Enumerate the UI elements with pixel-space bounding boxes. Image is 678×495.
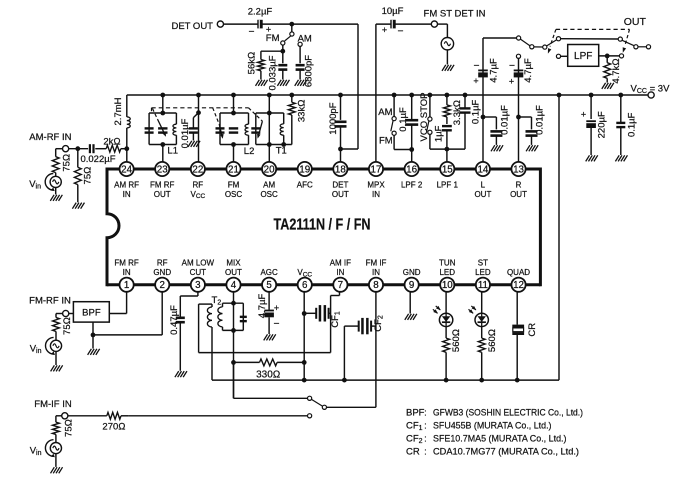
svg-text:FM RF: FM RF: [150, 180, 175, 189]
svg-text:MPX: MPX: [367, 180, 385, 189]
svg-text:0.1µF: 0.1µF: [470, 99, 481, 124]
svg-text:FM IF: FM IF: [366, 258, 387, 267]
svg-text:AM-RF IN: AM-RF IN: [29, 132, 71, 143]
svg-text:GND: GND: [403, 268, 421, 277]
svg-text:OSC: OSC: [225, 190, 243, 199]
svg-text:CR: CR: [406, 447, 420, 458]
svg-text:IN: IN: [336, 268, 344, 277]
svg-text:56kΩ: 56kΩ: [247, 52, 258, 75]
svg-text:AM: AM: [298, 34, 312, 45]
svg-text:LPF 2: LPF 2: [401, 180, 423, 189]
svg-text::: :: [424, 420, 427, 431]
svg-text:AFC: AFC: [297, 180, 313, 189]
svg-text:QUAD: QUAD: [507, 268, 530, 277]
svg-text:IN: IN: [123, 268, 131, 277]
svg-text:3: 3: [195, 280, 201, 291]
svg-text:VCO STOP: VCO STOP: [419, 93, 430, 142]
svg-text:OUT: OUT: [624, 16, 647, 28]
svg-text:LED: LED: [439, 268, 455, 277]
svg-text:6: 6: [302, 280, 308, 291]
svg-text:AGC: AGC: [260, 268, 278, 277]
svg-text:TA2111N / F / FN: TA2111N / F / FN: [274, 216, 371, 233]
svg-text:LPF: LPF: [574, 51, 592, 62]
svg-text:10: 10: [442, 280, 453, 291]
svg-text:0.47µF: 0.47µF: [169, 305, 180, 335]
svg-text:–: –: [398, 25, 403, 35]
svg-text:1µF: 1µF: [434, 125, 445, 142]
svg-text:LPF 1: LPF 1: [437, 180, 459, 189]
svg-text:13: 13: [513, 165, 524, 176]
svg-text:9: 9: [409, 280, 414, 291]
svg-text:+: +: [581, 110, 586, 120]
svg-text:–: –: [274, 318, 279, 328]
svg-text:GND: GND: [153, 268, 171, 277]
svg-text:2.2µF: 2.2µF: [248, 7, 273, 18]
svg-text:GFWB3 (SOSHIN ELECTRIC Co., Lt: GFWB3 (SOSHIN ELECTRIC Co., Ltd.): [433, 407, 583, 418]
svg-text::: :: [424, 447, 427, 458]
svg-text:LED: LED: [475, 268, 491, 277]
svg-text::: :: [424, 434, 427, 445]
svg-text:0.1µF: 0.1µF: [627, 112, 638, 137]
svg-text:+: +: [274, 303, 279, 313]
svg-text:DET: DET: [332, 180, 348, 189]
svg-text:7: 7: [338, 280, 343, 291]
svg-text:0.01µF: 0.01µF: [180, 118, 191, 148]
svg-text:16: 16: [406, 165, 417, 176]
svg-text:18: 18: [335, 165, 346, 176]
svg-text:2kΩ: 2kΩ: [103, 136, 120, 147]
svg-text:75Ω: 75Ω: [64, 419, 75, 437]
svg-text:RF: RF: [157, 258, 168, 267]
svg-text:0.1µF: 0.1µF: [398, 107, 409, 132]
svg-text:TUN: TUN: [439, 258, 456, 267]
svg-text:+: +: [473, 76, 478, 86]
svg-text:AM IF: AM IF: [330, 258, 351, 267]
svg-text:0.01µF: 0.01µF: [499, 105, 510, 135]
svg-text:20: 20: [264, 165, 275, 176]
svg-text:1: 1: [124, 280, 129, 291]
svg-text:CDA10.7MG77 (MURATA Co., Ltd.): CDA10.7MG77 (MURATA Co., Ltd.): [433, 447, 579, 458]
svg-text:OSC: OSC: [260, 190, 278, 199]
svg-text:AM LOW: AM LOW: [182, 258, 215, 267]
svg-text:270Ω: 270Ω: [102, 421, 125, 432]
svg-text:560Ω: 560Ω: [487, 329, 498, 352]
svg-text:ST: ST: [478, 258, 488, 267]
svg-text:14: 14: [477, 165, 488, 176]
svg-text:+: +: [509, 77, 514, 87]
svg-text::: :: [424, 407, 427, 418]
svg-text:15: 15: [442, 165, 453, 176]
svg-text:–: –: [474, 60, 479, 70]
svg-text:75Ω: 75Ω: [62, 154, 73, 172]
svg-text:4.7µF: 4.7µF: [489, 58, 500, 83]
svg-text:IN: IN: [123, 190, 131, 199]
svg-text:2.7mH: 2.7mH: [113, 97, 124, 125]
svg-text:17: 17: [371, 165, 382, 176]
svg-text:SFE10.7MA5 (MURATA Co., Ltd.): SFE10.7MA5 (MURATA Co., Ltd.): [433, 434, 567, 445]
svg-text:–: –: [249, 25, 254, 35]
svg-text:FM-RF IN: FM-RF IN: [29, 295, 71, 306]
svg-text:FM RF: FM RF: [114, 258, 139, 267]
svg-text:75Ω: 75Ω: [83, 167, 94, 185]
svg-text:23: 23: [157, 165, 168, 176]
svg-text:12: 12: [513, 280, 524, 291]
svg-text:RF: RF: [193, 180, 204, 189]
svg-text:SFU455B (MURATA Co., Ltd.): SFU455B (MURATA Co., Ltd.): [433, 420, 552, 431]
svg-text:560Ω: 560Ω: [451, 329, 462, 352]
svg-text:1000pF: 1000pF: [328, 102, 339, 134]
svg-text:BPF: BPF: [406, 407, 425, 418]
svg-text:24: 24: [121, 165, 132, 176]
svg-text:IN: IN: [372, 190, 380, 199]
svg-text:4.7µF: 4.7µF: [257, 294, 268, 319]
svg-text:22: 22: [192, 165, 203, 176]
svg-text:FM ST DET IN: FM ST DET IN: [424, 9, 486, 20]
svg-text:4.7µF: 4.7µF: [523, 58, 534, 83]
svg-text:FM: FM: [266, 33, 280, 44]
svg-text:IN: IN: [372, 268, 380, 277]
svg-text:4: 4: [231, 280, 237, 291]
svg-text:CR: CR: [527, 323, 538, 337]
svg-text:OUT: OUT: [154, 190, 171, 199]
svg-text:10µF: 10µF: [382, 6, 404, 17]
svg-text:DET OUT: DET OUT: [171, 21, 213, 32]
svg-text:220µF: 220µF: [597, 111, 608, 138]
svg-text:4.7kΩ: 4.7kΩ: [611, 58, 622, 83]
svg-text:33kΩ: 33kΩ: [296, 99, 307, 122]
svg-text:75Ω: 75Ω: [62, 317, 73, 335]
svg-text:MIX: MIX: [226, 258, 241, 267]
svg-text:OUT: OUT: [225, 268, 242, 277]
svg-text:L2: L2: [244, 146, 255, 157]
svg-text:19: 19: [299, 165, 310, 176]
svg-text:21: 21: [228, 165, 239, 176]
svg-text:L1: L1: [167, 146, 178, 157]
svg-text:0.01µF: 0.01µF: [534, 105, 545, 135]
svg-text:5: 5: [266, 280, 272, 291]
svg-text:OUT: OUT: [474, 190, 491, 199]
svg-text:L: L: [481, 180, 486, 189]
svg-text:+: +: [382, 25, 387, 35]
svg-text:0.022µF: 0.022µF: [80, 154, 115, 165]
svg-text:8: 8: [373, 280, 379, 291]
svg-text:BPF: BPF: [82, 308, 101, 319]
svg-text:2: 2: [160, 280, 165, 291]
svg-text:–: –: [509, 60, 514, 70]
svg-text:0.033µF: 0.033µF: [268, 55, 279, 90]
svg-text:T1: T1: [276, 146, 287, 157]
svg-text:330Ω: 330Ω: [256, 369, 280, 380]
svg-text:OUT: OUT: [510, 190, 527, 199]
svg-text:AM: AM: [378, 107, 392, 118]
svg-text:VCC = 3V: VCC = 3V: [631, 83, 671, 95]
svg-text:FM-IF IN: FM-IF IN: [34, 399, 72, 410]
svg-text:CUT: CUT: [190, 268, 207, 277]
svg-text:AM: AM: [263, 180, 275, 189]
svg-text:FM: FM: [379, 136, 393, 147]
svg-text:OUT: OUT: [332, 190, 349, 199]
svg-text:AM RF: AM RF: [114, 180, 139, 189]
svg-text:FM: FM: [228, 180, 240, 189]
svg-text:R: R: [516, 180, 522, 189]
svg-text:11: 11: [478, 280, 488, 291]
svg-text:6800pF: 6800pF: [303, 55, 314, 87]
